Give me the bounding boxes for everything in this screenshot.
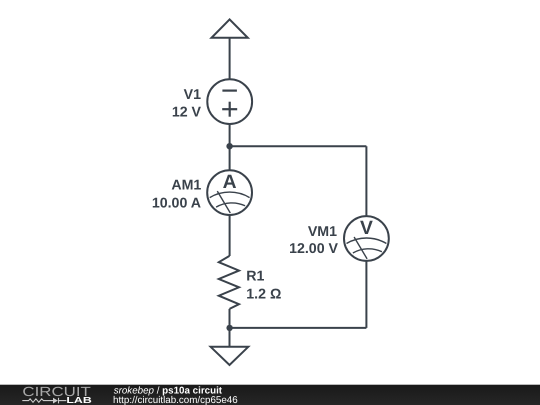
svg-text:10.00 A: 10.00 A bbox=[152, 195, 201, 211]
svg-text:A: A bbox=[223, 172, 237, 193]
svg-text:V1: V1 bbox=[184, 87, 201, 103]
svg-text:AM1: AM1 bbox=[171, 178, 201, 194]
svg-text:12 V: 12 V bbox=[172, 104, 202, 120]
svg-text:V: V bbox=[360, 218, 373, 239]
svg-text:R1: R1 bbox=[246, 269, 264, 285]
svg-text:VM1: VM1 bbox=[308, 224, 337, 240]
svg-text:http://circuitlab.com/cp65e46: http://circuitlab.com/cp65e46 bbox=[113, 395, 238, 405]
svg-text:1.2 Ω: 1.2 Ω bbox=[246, 287, 281, 303]
svg-text:LAB: LAB bbox=[66, 395, 91, 405]
svg-text:12.00 V: 12.00 V bbox=[289, 241, 338, 257]
